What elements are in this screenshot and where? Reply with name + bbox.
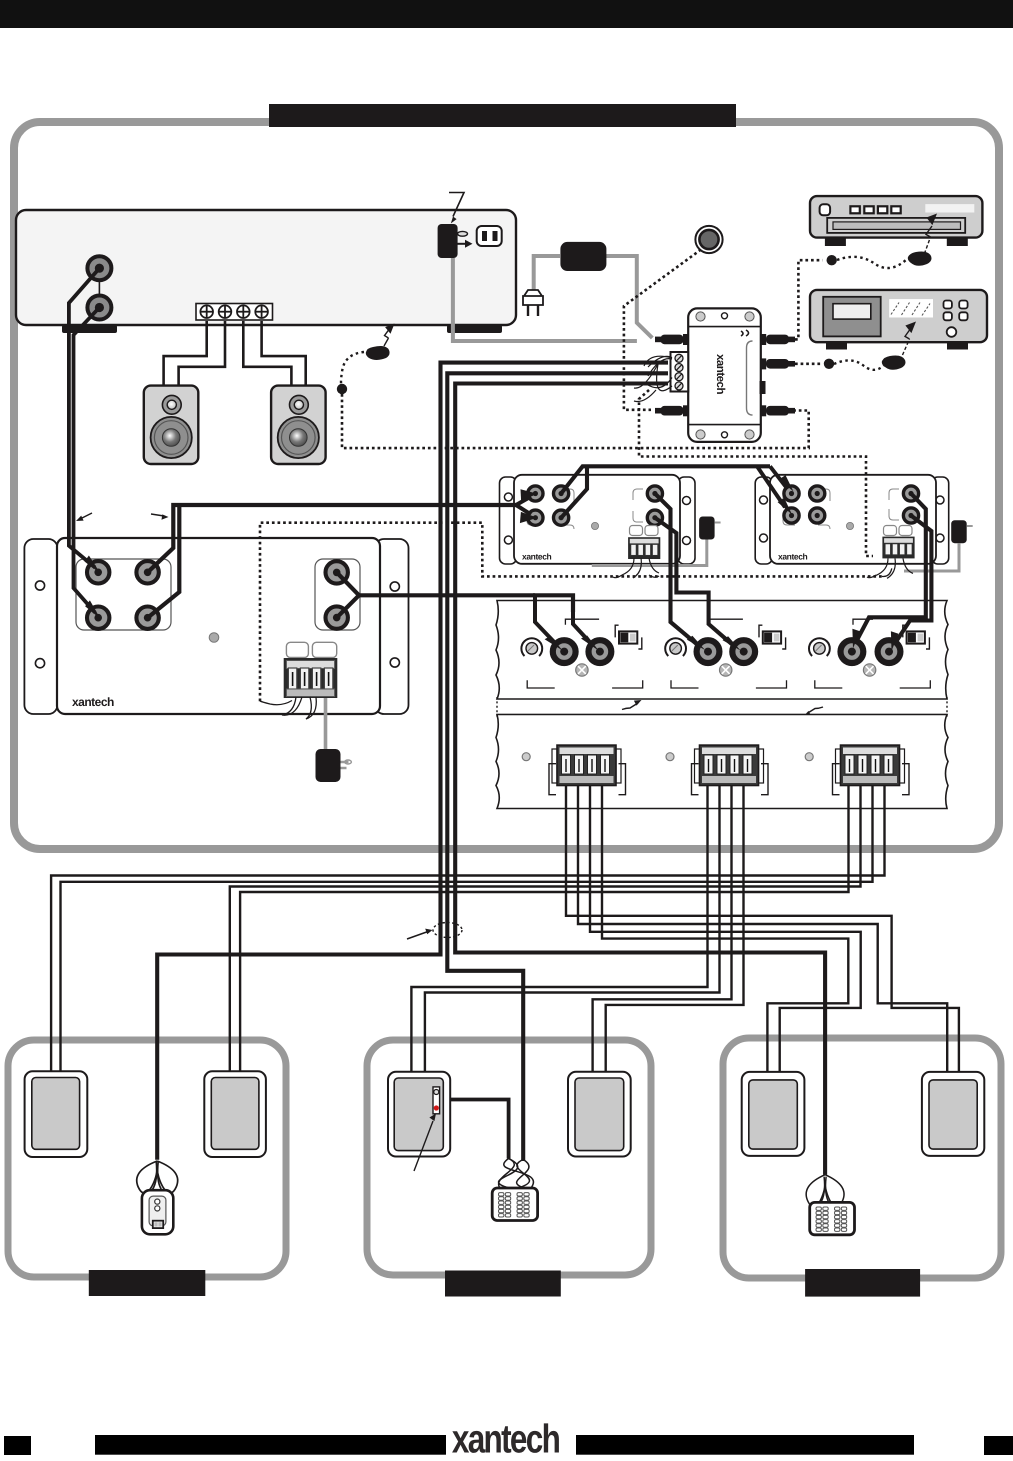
footer right block xyxy=(984,1436,1013,1455)
repeater unit 2 body xyxy=(770,475,936,564)
room 1 zone label bar xyxy=(89,1270,206,1296)
keypad hookup wires into screw terminals xyxy=(634,356,672,401)
room 3 zone label bar xyxy=(805,1269,920,1297)
speaker wires zone 2 to room 2 xyxy=(411,783,743,1073)
IR receiver dotted lead to connecting block xyxy=(624,250,701,410)
svg-text:xantech: xantech xyxy=(714,354,726,394)
amp output LED zone 3 xyxy=(805,753,813,761)
control unit output jack L xyxy=(326,561,348,583)
outer system frame xyxy=(14,122,999,849)
amp zone 2 output brackets xyxy=(692,764,769,795)
keypad control wire 1 xyxy=(157,363,668,1160)
power cord callout line "7" xyxy=(449,193,464,224)
receiver-to-control RCA cable R xyxy=(74,308,100,613)
control unit output jack R xyxy=(326,606,348,628)
control unit input jack frame xyxy=(76,559,171,630)
control unit left mounting bracket xyxy=(24,539,57,714)
control unit input jack 4 xyxy=(136,607,158,629)
svg-text:xantech: xantech xyxy=(72,695,114,709)
amp output LED zone 2 xyxy=(666,753,674,761)
amp zone 2 layout brackets xyxy=(671,619,787,688)
repeater 1 terminal block xyxy=(628,537,660,559)
IR sensor callout arrow xyxy=(414,1114,436,1172)
emitter plug in block right port 1 xyxy=(761,334,795,345)
DC power plug into block top-left port xyxy=(655,334,688,345)
amp zone 1 screw xyxy=(576,664,588,676)
receiver power cord (gray) xyxy=(453,258,637,341)
repeater 1 terminal tabs xyxy=(630,526,659,536)
speaker wires zone 3 to room 1 xyxy=(51,783,884,1072)
twisted pair callout xyxy=(407,923,462,940)
repeater 2 power adapter xyxy=(904,520,973,571)
footer right bar xyxy=(576,1435,914,1455)
amp output LED zone 1 xyxy=(522,753,530,761)
amp upper strip (zone inputs) xyxy=(496,601,948,700)
keypad control wire 2 xyxy=(447,373,668,1161)
repeater 1 power adapter xyxy=(592,517,721,566)
repeater unit 1 right bracket xyxy=(678,477,695,564)
footer left block xyxy=(4,1436,31,1455)
power supply adapter xyxy=(534,242,653,338)
signal cable: control out to amp zone1 xyxy=(337,572,599,650)
amp zone 3 volume knob xyxy=(809,638,830,656)
speaker wire 1 xyxy=(164,321,207,386)
amp zone 1 trim switch xyxy=(615,625,642,649)
svg-text:xantech: xantech xyxy=(522,552,552,562)
receiver AC power connector xyxy=(438,224,473,258)
amp zone 1 input jack R xyxy=(589,640,612,663)
amp divider band xyxy=(497,697,947,717)
control unit input jack 1 xyxy=(87,561,109,583)
receiver speaker terminal strip xyxy=(196,304,273,321)
control unit terminal tabs xyxy=(286,642,336,657)
speaker wire 4 xyxy=(262,321,306,386)
receiver RCA output jack R xyxy=(87,296,111,320)
emitter chain 1 (to CD player) xyxy=(795,214,937,340)
repeater unit 2 right bracket xyxy=(932,477,949,564)
amp zone 3 layout brackets xyxy=(815,619,931,688)
speaker wire 3 xyxy=(243,321,291,386)
control keypad-loop dashed path xyxy=(260,523,892,705)
tuner / cassette deck xyxy=(810,290,987,350)
room 3 keypad xyxy=(810,1202,855,1234)
room 3 in-wall speaker right xyxy=(922,1072,984,1156)
amp zone 3 output terminal block xyxy=(836,745,905,785)
room 2 boundary xyxy=(367,1040,651,1275)
dashed IR run: emitter plug down and across (line A) xyxy=(342,394,809,448)
dashed IR run from screw terminals to repeater 2 (line B) xyxy=(639,390,873,556)
amp zone 2 input jack L xyxy=(697,640,720,663)
stereo speaker left xyxy=(144,386,199,464)
AC plug icon xyxy=(523,290,543,316)
control unit power adapter xyxy=(316,698,352,782)
amp zone 1 layout brackets xyxy=(527,619,642,688)
repeater 2 terminal block xyxy=(882,537,914,559)
emitter plug in block right port 2 xyxy=(761,358,795,369)
footer left bar xyxy=(95,1435,446,1455)
room 1 volume control xyxy=(142,1190,173,1234)
room 2 keypad wire twist xyxy=(499,1159,534,1189)
repeater 2 terminal tabs xyxy=(884,526,913,536)
amp lower strip (speaker outputs) xyxy=(496,715,948,809)
xantech connecting block body xyxy=(688,308,761,442)
control unit right mounting bracket xyxy=(375,539,409,714)
IR input plug into block bottom-left port xyxy=(655,405,688,416)
room 1 boundary xyxy=(8,1040,286,1277)
control unit (left-mid) body xyxy=(57,538,380,714)
room 1 in-wall speaker left xyxy=(25,1071,88,1157)
thin wires control terminal to dashed run xyxy=(282,697,316,719)
signal cable: control col2 jacks to repeater 1 xyxy=(148,489,538,617)
emitter chain 2 (to tuner) xyxy=(795,322,916,370)
amp zone 1 output terminal block xyxy=(552,745,621,785)
room 1 in-wall speaker right xyxy=(204,1071,266,1157)
keypad control wire 3 xyxy=(455,384,825,1175)
room 2 keypad xyxy=(492,1188,537,1221)
amp zone 3 input jack L xyxy=(841,640,864,663)
callout arrow left cable xyxy=(76,513,92,521)
repeater 2 output jacks xyxy=(889,486,919,523)
repeater unit 1 body xyxy=(514,475,680,564)
CD player xyxy=(810,196,982,246)
room 1 volume control wire loop xyxy=(137,1161,178,1193)
callout arrow right cable xyxy=(151,514,169,520)
room 3 boundary xyxy=(723,1038,1001,1278)
amp zone 3 input jack R xyxy=(878,640,901,663)
repeater unit 2 left bracket xyxy=(755,477,772,564)
amp zone 2 input jack R xyxy=(732,640,755,663)
amp zone 1 input jack L xyxy=(553,640,576,663)
receiver/amplifier rear panel xyxy=(16,210,516,333)
speaker wires zone 1 to room 3 xyxy=(566,783,959,1072)
stereo speaker right xyxy=(271,386,326,464)
amp zone 3 trim switch xyxy=(903,625,930,649)
room 2 zone label bar xyxy=(445,1271,561,1297)
control unit output jack frame xyxy=(315,559,360,630)
room 3 in-wall speaker left xyxy=(742,1072,805,1156)
amp zone 3 screw xyxy=(863,664,875,676)
IR sensor wire to keypad xyxy=(450,1100,508,1159)
amp zone 2 trim switch xyxy=(759,625,786,649)
svg-text:xantech: xantech xyxy=(452,1418,560,1461)
repeater 1 input jacks xyxy=(528,486,569,525)
amp zone 2 screw xyxy=(720,664,732,676)
emitter plug in block right port 3 xyxy=(761,405,795,416)
receiver-to-control RCA cable L xyxy=(69,268,100,567)
control unit terminal block xyxy=(284,658,338,698)
control unit input jack 3 xyxy=(87,607,109,629)
signal cable: repeater1 out to amp zone2 xyxy=(655,494,741,651)
IR emitter on receiver face xyxy=(337,324,395,395)
room 2 in-wall speaker right xyxy=(568,1072,631,1157)
repeater unit 1 left bracket xyxy=(500,477,517,564)
svg-text:xantech: xantech xyxy=(778,552,808,562)
control unit input jack 2 xyxy=(136,561,158,583)
unused port stub on block right xyxy=(760,381,766,394)
amp zone 2 output terminal block xyxy=(695,745,764,785)
room 2 wall speaker with IR sensor xyxy=(388,1072,450,1157)
room 3 keypad wire loop xyxy=(806,1175,844,1207)
signal cable: repeater1 col2 to repeater2 xyxy=(561,465,793,518)
amp zone 1 volume knob xyxy=(521,638,542,656)
repeater 2 input jacks xyxy=(784,486,825,523)
speaker wire 2 xyxy=(179,321,225,386)
title bar xyxy=(269,104,736,127)
amp zone 3 output brackets xyxy=(833,764,910,795)
repeater 2 terminal drop wires xyxy=(867,558,913,578)
repeater 1 terminal drop wires xyxy=(613,558,659,578)
top black banner xyxy=(0,0,1013,28)
repeater 1 output jacks xyxy=(633,486,663,525)
amp zone 1 output brackets xyxy=(549,764,626,795)
amp zone 2 volume knob xyxy=(665,638,686,656)
wall outlet icon xyxy=(477,226,502,246)
divider arrow left-down xyxy=(804,707,824,717)
connecting block screw terminal strip xyxy=(671,352,689,392)
divider arrow right-up xyxy=(622,700,642,710)
signal cable: repeater2 out to amp zone3 xyxy=(852,494,931,652)
IR receiver (round eye) xyxy=(695,226,722,253)
receiver RCA output jack L xyxy=(87,256,111,296)
